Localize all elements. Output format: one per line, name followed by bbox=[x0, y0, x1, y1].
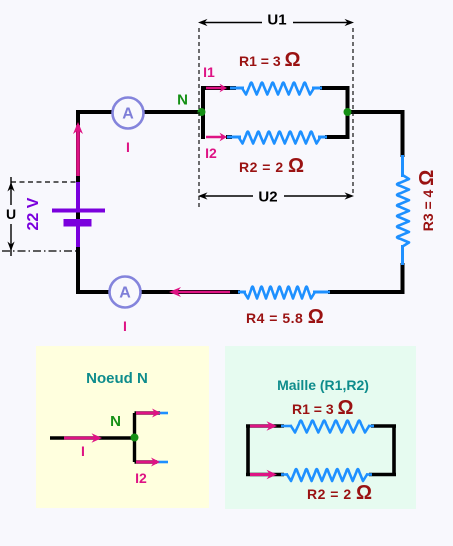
svg-text:I: I bbox=[123, 318, 127, 334]
svg-text:R2 = 2 Ω: R2 = 2 Ω bbox=[239, 155, 305, 177]
svg-text:Maille (R1,R2): Maille (R1,R2) bbox=[277, 377, 369, 393]
svg-text:22 V: 22 V bbox=[25, 197, 42, 230]
svg-text:I: I bbox=[81, 443, 85, 459]
svg-text:U1: U1 bbox=[267, 12, 286, 29]
svg-text:R1 = 3 Ω: R1 = 3 Ω bbox=[292, 397, 354, 419]
svg-text:U2: U2 bbox=[258, 189, 277, 206]
svg-text:U: U bbox=[6, 206, 16, 222]
svg-text:R3 = 4 Ω: R3 = 4 Ω bbox=[416, 170, 438, 232]
svg-text:I2: I2 bbox=[135, 470, 147, 486]
svg-text:I: I bbox=[126, 139, 130, 155]
svg-text:R4 = 5.8 Ω: R4 = 5.8 Ω bbox=[246, 306, 324, 328]
svg-text:R2 = 2 Ω: R2 = 2 Ω bbox=[307, 482, 373, 504]
svg-text:R1 = 3 Ω: R1 = 3 Ω bbox=[239, 49, 301, 71]
svg-text:I2: I2 bbox=[205, 145, 217, 161]
svg-text:A: A bbox=[119, 285, 131, 302]
svg-text:N: N bbox=[177, 92, 188, 109]
svg-text:Noeud N: Noeud N bbox=[86, 370, 148, 387]
svg-text:N: N bbox=[110, 413, 121, 430]
svg-text:I1: I1 bbox=[203, 64, 215, 80]
svg-text:A: A bbox=[122, 106, 134, 123]
